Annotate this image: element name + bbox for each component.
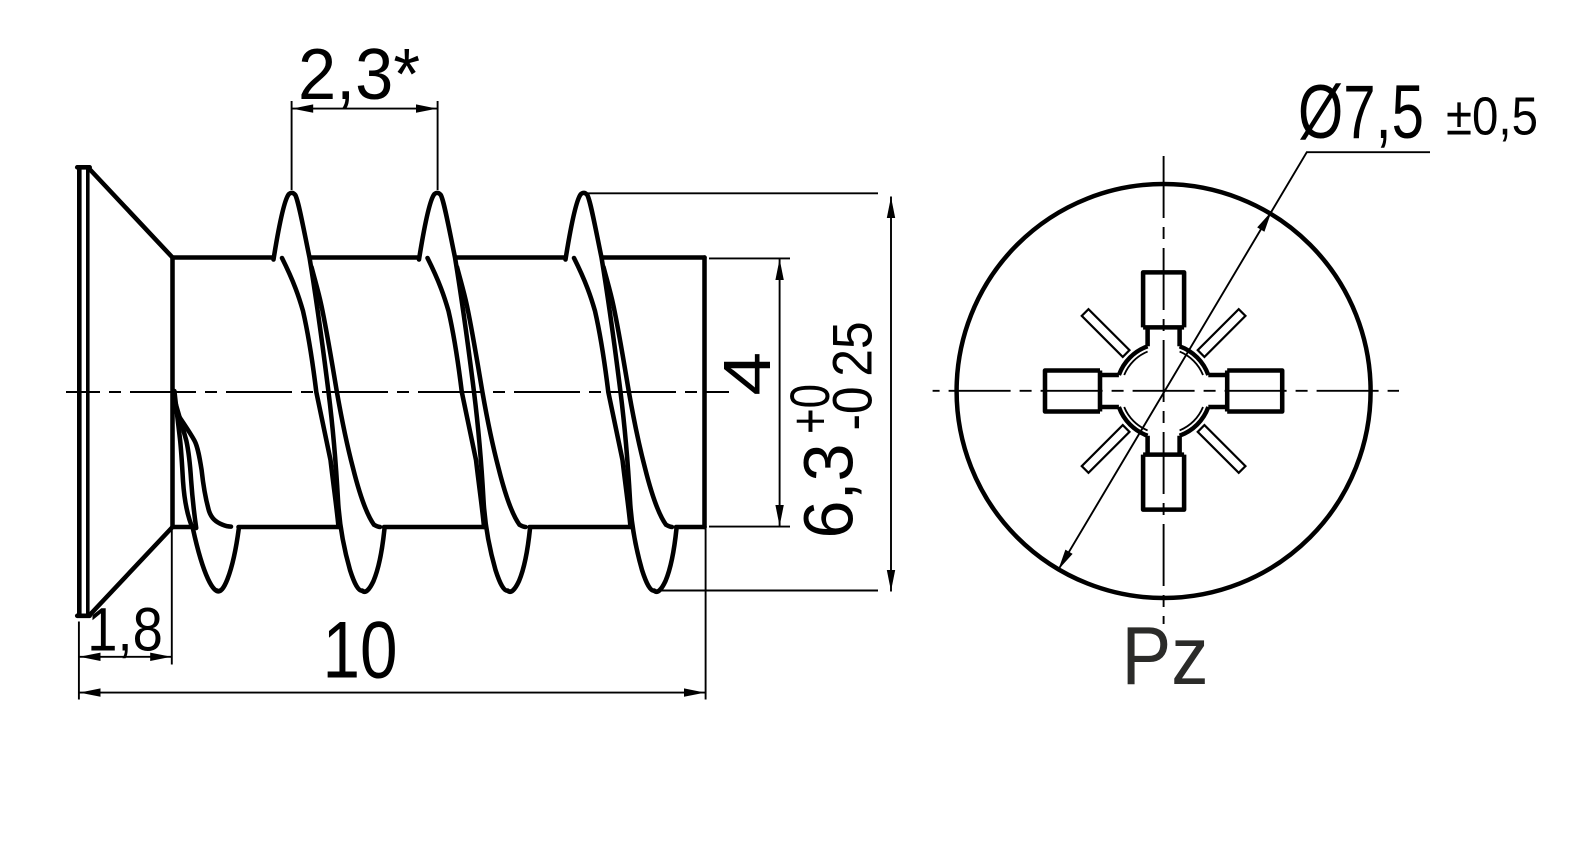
pozidriv tick lower-right [1198, 425, 1246, 473]
pozidriv wing bottom [1143, 436, 1184, 510]
pozidriv wing top [1143, 272, 1184, 346]
recess circle thin inner arcs [1124, 352, 1203, 431]
svg-text:2,3*: 2,3* [298, 35, 420, 115]
body bottom edge [173, 525, 705, 530]
svg-text:±0,5: ±0,5 [1446, 87, 1538, 147]
pozidriv wing left [1045, 371, 1119, 412]
dim 1,8 dimension line [79, 656, 172, 658]
horizontal centerline [933, 390, 1399, 392]
dim 2,3* extension lines [292, 101, 438, 190]
svg-text:1,8: 1,8 [87, 596, 163, 664]
body end vertical edge [702, 258, 707, 528]
centerline (side view axis) [66, 391, 729, 393]
insert flange rim outer edge [77, 166, 82, 617]
pozidriv tick upper-right [1198, 309, 1246, 357]
thread rev 2 [274, 193, 385, 592]
rim top cap [77, 165, 90, 170]
pozidriv tick lower-left [1082, 425, 1130, 473]
body top edge [173, 255, 705, 260]
dim 6,3 extension lines [588, 193, 878, 590]
recess circle thick arcs [1119, 346, 1208, 435]
svg-text:Ø7,5: Ø7,5 [1298, 70, 1424, 155]
thread rev 3 [419, 193, 530, 592]
thread rev 4 [566, 193, 677, 592]
dim 10 dimension line [79, 692, 706, 694]
dim 1,8 extension lines [79, 527, 172, 700]
pozidriv wing right [1208, 371, 1282, 412]
svg-text:-0 25: -0 25 [821, 322, 884, 431]
body start vertical edge [170, 258, 175, 528]
countersink cone bottom edge [90, 527, 173, 615]
dim 10 right extension line [705, 527, 707, 700]
thread rev 1 (partial, emerging at body start) [174, 391, 238, 591]
dim 4 dimension line [779, 258, 781, 526]
svg-text:Pz: Pz [1122, 609, 1209, 702]
svg-text:4: 4 [710, 352, 785, 396]
svg-text:6,3: 6,3 [790, 444, 868, 539]
insert flange rim inner edge [86, 168, 90, 616]
dim 6,3 dimension line [890, 197, 892, 592]
head outer circle [957, 184, 1371, 598]
rim bottom cap [77, 614, 90, 619]
dim 4 extension lines [709, 258, 790, 526]
svg-text:10: 10 [323, 606, 398, 696]
vertical centerline [1163, 156, 1165, 624]
leader line diameter [1058, 152, 1430, 570]
pozidriv tick upper-left [1082, 309, 1130, 357]
countersink cone top edge [89, 169, 173, 258]
dim 2,3* dimension line [292, 108, 438, 110]
